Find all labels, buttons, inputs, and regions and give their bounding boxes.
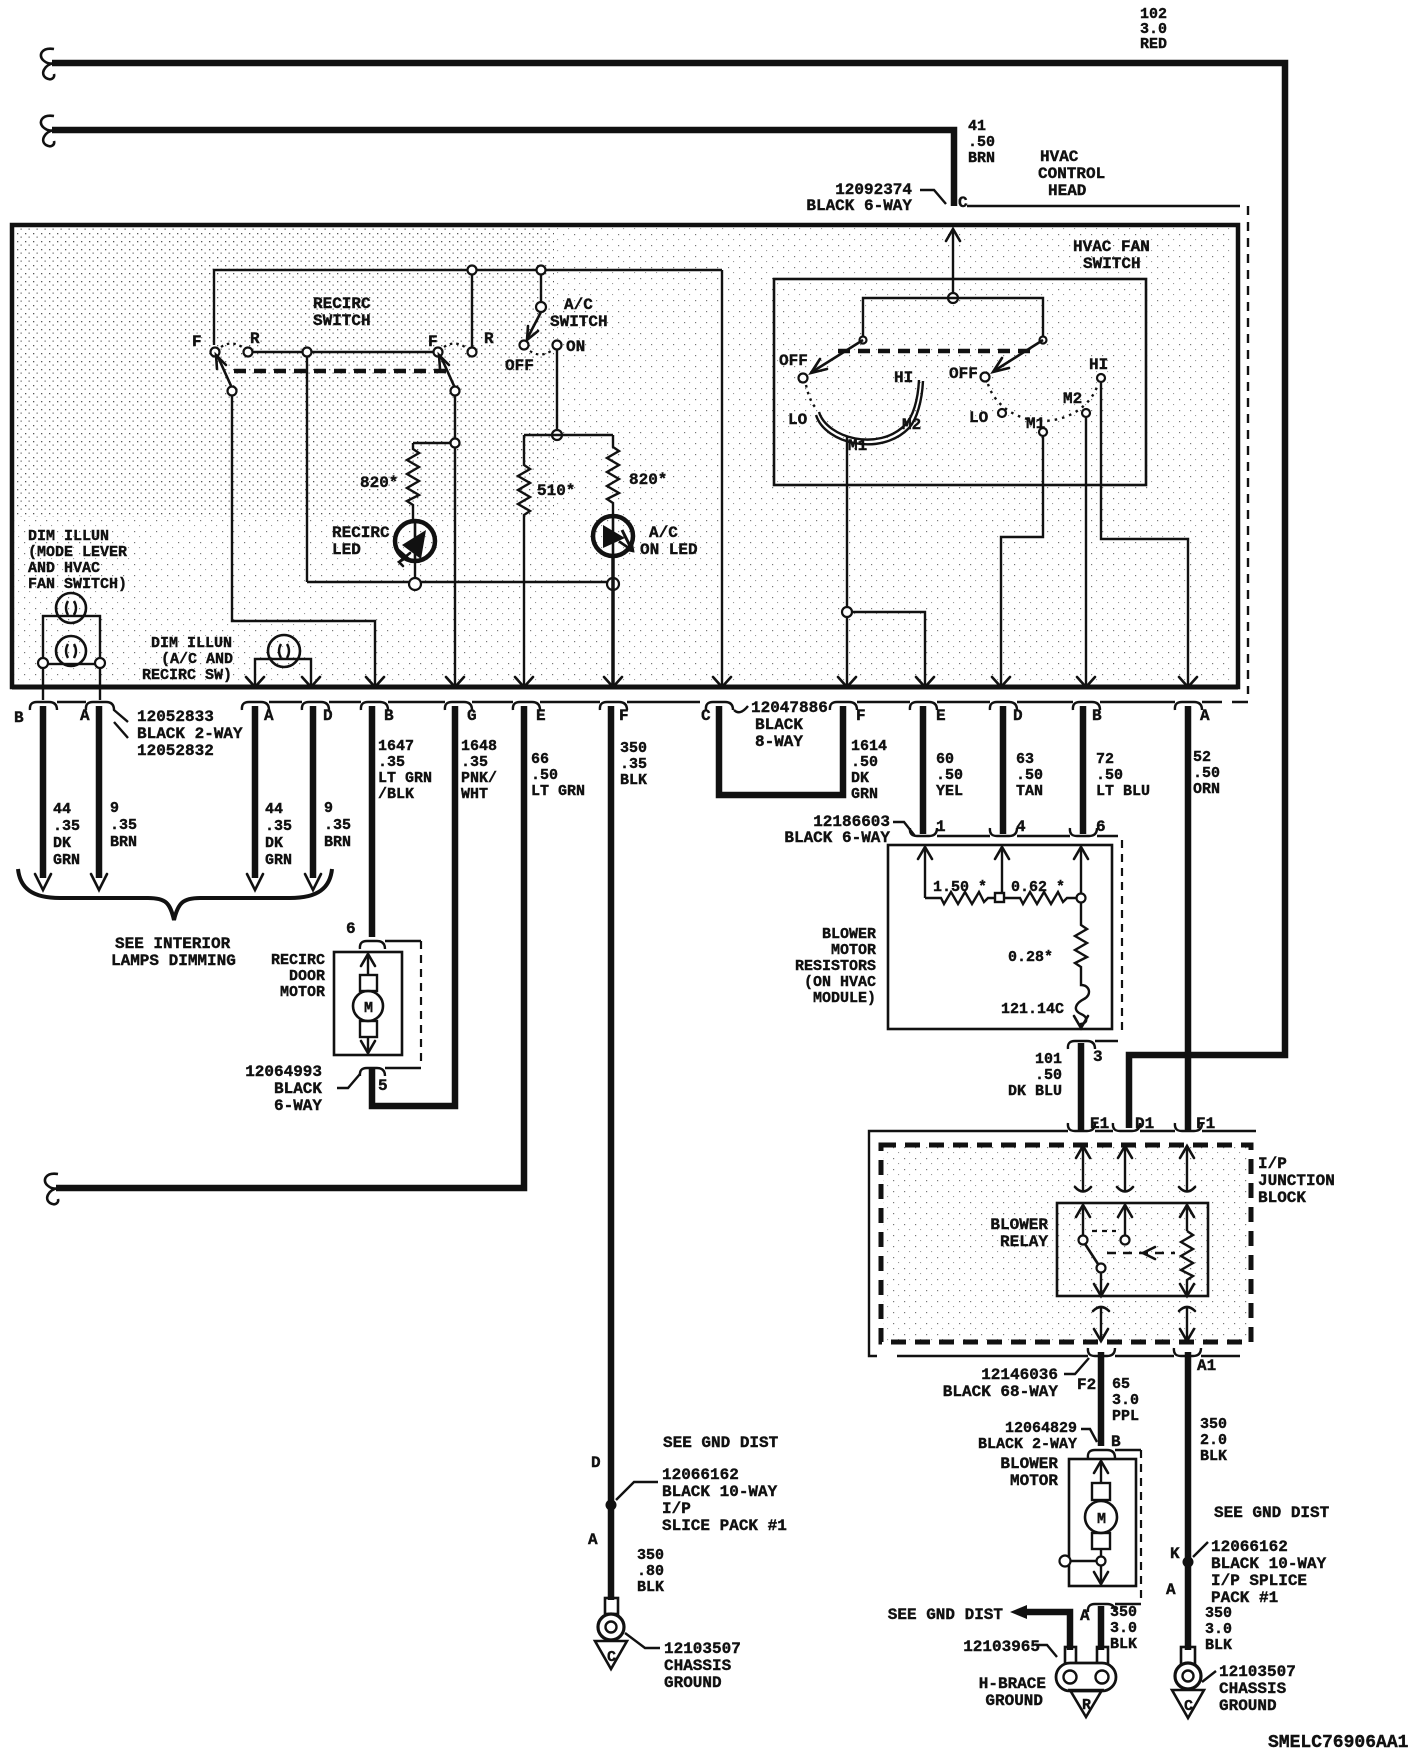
break symbol on wire 41 [41,116,54,147]
wire from left pole down to connector B [232,395,375,686]
svg-text:CONTROL: CONTROL [1038,165,1105,183]
wires from lamp terminals through box bottom [42,668,44,700]
svg-text:66: 66 [531,751,549,768]
svg-text:D: D [323,707,333,725]
svg-text:M: M [1097,1511,1106,1528]
wire A/C LED bottom down to connector F [611,556,615,686]
connector 12186603 face (pins 1 4 6) [910,828,1118,836]
wire E1 into block [1076,1146,1090,1158]
svg-text:MOTOR: MOTOR [1010,1472,1058,1490]
6-way connector dashed body [1121,840,1123,1036]
svg-text:.50: .50 [1096,767,1123,784]
wire 101 DK BLU to I/P junction E1 [1078,1043,1085,1130]
svg-text:F: F [192,333,202,351]
svg-text:JUNCTION: JUNCTION [1258,1172,1335,1190]
svg-text:12066162: 12066162 [1211,1538,1288,1556]
svg-text:9: 9 [110,800,119,817]
svg-text:ON LED: ON LED [640,541,698,559]
svg-text:.50: .50 [531,767,558,784]
svg-text:(ON HVAC: (ON HVAC [804,974,876,991]
left pole pivot [228,387,237,396]
svg-text:HEAD: HEAD [1048,182,1086,200]
svg-text:BLACK 6-WAY: BLACK 6-WAY [784,829,890,847]
svg-text:.35: .35 [378,754,405,771]
svg-text:G: G [467,707,477,725]
svg-text:DK: DK [265,835,283,852]
junction to LED return rail [303,348,312,357]
wire 65 PPL (F2 to blower motor B) [1098,1352,1105,1446]
svg-text:GROUND: GROUND [985,1692,1043,1710]
wire coil return to A1 (through block bottom) [1179,1307,1195,1311]
resistor 0.62 [1004,892,1076,904]
junction circle [1077,894,1086,903]
detent arc F-R [221,344,242,348]
svg-text:350: 350 [637,1547,664,1564]
wire: inner box right edge down to connector C [721,270,723,686]
svg-text:12064993: 12064993 [245,1063,322,1081]
svg-text:101: 101 [1035,1051,1062,1068]
svg-text:.35: .35 [110,817,137,834]
svg-text:5: 5 [378,1077,388,1095]
svg-text:A: A [80,707,90,725]
arrows lamp3 leads at box edge [246,677,264,687]
svg-text:.35: .35 [53,818,80,835]
wire relay to F2 (through block bottom) [1093,1307,1109,1311]
svg-text:BLOWER: BLOWER [1000,1455,1058,1473]
rail to 510 and 820 branches [524,434,613,436]
svg-text:0.28*: 0.28* [1008,949,1053,966]
wire right M1 to connector D [1001,436,1043,686]
lamp 3 leads to connector A and D [255,659,311,686]
svg-text:DK: DK [53,835,71,852]
resistor 0.28 [1075,903,1087,972]
left detent dotted arc OFF-LO [806,385,817,409]
svg-text:B: B [384,707,394,725]
wire 9 BRN (A) [96,706,103,878]
resistor 820 (a/c on led) [607,435,619,517]
svg-text:52: 52 [1193,749,1211,766]
svg-text:WHT: WHT [461,786,488,803]
wire 60 YEL (E) [920,706,927,834]
resistor 1.50 [925,892,995,904]
wire 41 BRN (ignition feed) [52,130,954,206]
wire ON down to splitter [556,350,558,430]
svg-text:RESISTORS: RESISTORS [795,958,876,975]
svg-text:GROUND: GROUND [664,1674,722,1692]
wire 102 RED (battery feed, top) [52,63,1285,1128]
svg-text:FAN SWITCH): FAN SWITCH) [28,576,127,593]
svg-text:CHASSIS: CHASSIS [1219,1680,1287,1698]
svg-text:MOTOR: MOTOR [280,984,325,1001]
splice 12066162 (left) [606,1500,617,1511]
svg-text:12047886: 12047886 [751,699,828,717]
svg-text:BLK: BLK [1205,1637,1232,1654]
leader line to connector C [920,190,946,204]
svg-text:A: A [264,707,274,725]
svg-text:SWITCH: SWITCH [313,312,371,330]
LED A/C ON [593,516,633,556]
svg-text:PNK/: PNK/ [461,770,497,787]
svg-text:BLACK 68-WAY: BLACK 68-WAY [943,1383,1059,1401]
wire 1648 PNK/WHT (G) to recirc door motor pin 5 [372,706,455,1106]
svg-text:BLACK 2-WAY: BLACK 2-WAY [978,1436,1077,1453]
svg-text:.35: .35 [265,818,292,835]
svg-text:HVAC FAN: HVAC FAN [1073,238,1150,256]
h-brace ground terminal [1056,1647,1116,1717]
wire right M2 to connector B [1085,417,1087,686]
splice 12066162 (right) [1183,1557,1194,1568]
relay contact terminals [1079,1236,1088,1245]
svg-text:63: 63 [1016,751,1034,768]
right OFF terminal [981,373,990,382]
svg-text:SWITCH: SWITCH [550,313,608,331]
svg-text:C: C [1184,1698,1193,1715]
junction M1 split F/E [842,607,852,617]
wire C into fan switch (arrow up at box top) [946,229,960,241]
blower relay box [1057,1203,1208,1296]
svg-text:350: 350 [1205,1605,1232,1622]
wire C to F jumper (1614) [719,706,843,795]
svg-text:0.62 *: 0.62 * [1011,879,1065,896]
svg-text:A1: A1 [1197,1357,1216,1375]
svg-text:65: 65 [1112,1376,1130,1393]
svg-text:PPL: PPL [1112,1408,1139,1425]
svg-text:E: E [936,707,946,725]
svg-text:ON: ON [566,338,585,356]
chassis ground terminal (right) [1172,1647,1204,1718]
svg-text:D: D [591,1454,601,1472]
svg-text:.50: .50 [968,134,995,151]
svg-text:8-WAY: 8-WAY [755,733,803,751]
relay contact dashed hint [1092,1230,1116,1232]
svg-text:I/P: I/P [662,1500,691,1518]
wire R up to inner box top [471,270,473,347]
svg-text:LT GRN: LT GRN [531,783,585,800]
svg-text:.50: .50 [1016,767,1043,784]
wire R to F2 [252,351,434,353]
svg-text:GRN: GRN [851,786,878,803]
svg-text:LO: LO [788,411,808,429]
fan switch feed junction [948,293,958,303]
HVAC control head box bottom edge [12,685,1238,690]
svg-text:44: 44 [265,801,283,818]
svg-text:6-WAY: 6-WAY [274,1097,322,1115]
wire 350 BLK (F) to chassis ground [608,706,615,1600]
svg-text:3.0: 3.0 [1112,1392,1139,1409]
connector 12052833/12052832 face (2-way pair) [30,702,128,722]
leader to pin B [1081,1429,1097,1442]
break symbol on wire 102 [41,49,54,80]
blower motor connector face (A) [1088,1604,1141,1612]
right pole pivot [451,387,460,396]
svg-text:BLACK 2-WAY: BLACK 2-WAY [137,725,243,743]
svg-text:LED: LED [332,541,361,559]
svg-text:DK BLU: DK BLU [1008,1083,1062,1100]
svg-text:12103965: 12103965 [963,1638,1040,1656]
svg-text:6: 6 [346,920,356,938]
svg-text:MOTOR: MOTOR [831,942,876,959]
svg-text:BRN: BRN [324,834,351,851]
svg-text:RED: RED [1140,36,1167,53]
svg-text:LT GRN: LT GRN [378,770,432,787]
A/C switch armature [527,312,541,339]
leader from ground ring [1202,1671,1216,1682]
svg-text:OFF: OFF [949,365,978,383]
mechanical link fan switch (dashed) [838,349,1038,354]
svg-text:350: 350 [1200,1416,1227,1433]
svg-text:1648: 1648 [461,738,497,755]
svg-text:12103507: 12103507 [1219,1663,1296,1681]
wire junction to connector E [852,612,925,686]
svg-text:SWITCH: SWITCH [1083,255,1141,273]
right terminals LO M1 M2 HI [998,409,1006,417]
svg-text:12066162: 12066162 [662,1466,739,1484]
wire pin6 into resistor box [1074,847,1088,859]
svg-text:BLK: BLK [1200,1448,1227,1465]
svg-text:.50: .50 [936,767,963,784]
svg-text:RECIRC: RECIRC [332,524,390,542]
break symbol on wire 66 [45,1174,58,1205]
svg-text:(A/C AND: (A/C AND [161,651,233,668]
svg-text:TAN: TAN [1016,783,1043,800]
exit arrow at resistor box bottom [1074,1016,1088,1028]
connector face pin 3 [1068,1041,1118,1049]
svg-text:A: A [1080,1607,1090,1625]
LED cathode lead [414,561,416,582]
junction square [995,893,1004,902]
svg-text:A: A [1200,707,1210,725]
svg-text:3.0: 3.0 [1110,1620,1137,1637]
svg-text:60: 60 [936,751,954,768]
svg-text:SEE GND DIST: SEE GND DIST [663,1434,779,1452]
svg-text:DK: DK [851,770,869,787]
left armature to OFF [812,340,863,372]
svg-text:3: 3 [1093,1048,1103,1066]
svg-text:SEE GND DIST: SEE GND DIST [1214,1504,1330,1522]
wire 63 TAN (D) [1000,706,1007,834]
svg-text:1.50 *: 1.50 * [933,879,987,896]
relay actuation dashed link with arrow [1107,1252,1175,1254]
connector face line under C / control head dashed boundary [967,205,1240,207]
svg-text:HI: HI [1089,356,1108,374]
svg-text:C: C [607,1649,616,1666]
recirc door motor internals [353,954,383,1053]
svg-text:72: 72 [1096,751,1114,768]
svg-text:RECIRC: RECIRC [271,952,325,969]
svg-text:I/P SPLICE: I/P SPLICE [1211,1572,1307,1590]
connector 12146036 face (F2 A1) [1088,1348,1240,1356]
detent arc F-R (right) [444,344,465,348]
right pole pivot [1040,337,1047,344]
svg-text:BLOWER: BLOWER [990,1216,1048,1234]
wire armature to relay bottom [1100,1272,1102,1294]
svg-text:BLOWER: BLOWER [822,926,876,943]
svg-text:HVAC: HVAC [1040,148,1079,166]
blower motor connector dashed body [1140,1450,1142,1600]
svg-text:.35: .35 [461,754,488,771]
connector 6-way face (A D B G E F) [242,702,700,710]
svg-text:F: F [619,707,629,725]
svg-text:GRN: GRN [265,852,292,869]
svg-text:.35: .35 [324,817,351,834]
leader to pin 5 [337,1074,360,1088]
leader from C connector [734,706,748,712]
svg-text:BLK: BLK [637,1579,664,1596]
illumination lamp 1 (mode lever) [56,593,86,623]
relay pin arrows at top [1076,1205,1090,1217]
leader to pin 1 [893,822,915,836]
svg-text:MODULE): MODULE) [813,990,876,1007]
svg-text:ORN: ORN [1193,781,1220,798]
svg-text:OFF: OFF [779,352,808,370]
svg-text:9: 9 [324,800,333,817]
left contact strip arc LO-M1-M2-HI (double line) [819,380,919,440]
speckle background of I/P junction block [883,1145,1249,1341]
illumination lamp 2 (hvac fan switch) [56,636,86,666]
svg-text:A: A [588,1531,598,1549]
svg-text:CHASSIS: CHASSIS [664,1657,732,1675]
svg-text:350: 350 [1110,1604,1137,1621]
lamp housing box [43,616,100,664]
svg-text:RELAY: RELAY [1000,1233,1048,1251]
svg-text:.80: .80 [637,1563,664,1580]
A/C switch feed from inner box top [537,266,546,275]
recirc switch armature (right pole) [441,357,455,388]
svg-text:.50: .50 [1035,1067,1062,1084]
svg-text:M2: M2 [902,416,921,434]
resistor 820 (recirc led) [407,443,419,522]
svg-text:.50: .50 [1193,765,1220,782]
HVAC fan switch box [774,279,1146,485]
A/C switch OFF terminal [520,341,529,350]
svg-text:/BLK: /BLK [378,786,414,803]
wire junction to connector F [846,617,848,686]
branch wire + resistor 510 [518,435,530,686]
svg-text:2.0: 2.0 [1200,1432,1227,1449]
mechanical link recirc switch (dashed) [234,369,452,374]
wire 9 BRN (lamp3 D) [310,706,317,878]
connector 12047886 8-way face (C F E D B A) [706,702,1248,710]
left pole pivot [860,337,867,344]
leader to F2 [1064,1358,1089,1374]
svg-text:HI: HI [894,369,913,387]
svg-text:F: F [856,707,866,725]
svg-text:AND HVAC: AND HVAC [28,560,100,577]
relay armature [1085,1244,1098,1264]
relay coil [1181,1231,1193,1294]
svg-text:.50: .50 [851,754,878,771]
svg-text:B: B [14,709,24,727]
svg-text:M: M [364,1000,373,1017]
svg-text:41: 41 [968,118,986,135]
wire 1647 LT GRN/BLK (B) to recirc door motor pin 6 [369,706,376,937]
svg-text:BRN: BRN [968,150,995,167]
svg-text:121.14C: 121.14C [1001,1001,1064,1018]
wire 52 ORN (A) down to I/P junction F1 [1185,706,1192,1130]
svg-text:12052833: 12052833 [137,708,214,726]
speckle background of HVAC control head box [14,227,1234,685]
svg-text:GRN: GRN [53,852,80,869]
svg-text:4: 4 [1016,818,1026,836]
wire 72 LT BLU (B) [1080,706,1087,834]
svg-text:RECIRC SW): RECIRC SW) [142,667,232,684]
svg-text:R: R [484,330,494,348]
svg-text:LO: LO [969,409,989,427]
recirc door motor box [334,952,402,1055]
svg-text:12052832: 12052832 [137,742,214,760]
svg-text:BLACK 10-WAY: BLACK 10-WAY [662,1483,778,1501]
svg-text:DIM ILLUN: DIM ILLUN [151,635,232,652]
svg-text:350: 350 [620,740,647,757]
svg-text:A/C: A/C [649,524,678,542]
blower motor box [1069,1459,1136,1586]
svg-text:M2: M2 [1063,390,1082,408]
left OFF terminal [799,374,808,383]
svg-text:820*: 820* [360,474,398,492]
svg-text:.35: .35 [620,756,647,773]
svg-text:SLICE PACK #1: SLICE PACK #1 [662,1517,787,1535]
A/C switch ON terminal [553,341,562,350]
svg-text:OFF: OFF [505,357,534,375]
led return rail [307,581,613,583]
svg-text:RECIRC: RECIRC [313,295,371,313]
svg-text:I/P: I/P [1258,1155,1287,1173]
svg-text:M1: M1 [1026,415,1045,433]
svg-text:12103507: 12103507 [664,1640,741,1658]
svg-text:1614: 1614 [851,738,887,755]
svg-text:GROUND: GROUND [1219,1697,1277,1715]
LED RECIRC [395,521,435,566]
svg-text:A: A [1166,1581,1176,1599]
recirc door motor connector face (top) [360,941,421,949]
svg-text:BLACK 6-WAY: BLACK 6-WAY [806,197,912,215]
wire right HI to connector A [1101,382,1188,686]
svg-text:D: D [1013,707,1023,725]
svg-text:SMELC76906AA1: SMELC76906AA1 [1268,1733,1408,1753]
wire 350 BLK (blower motor ground) [1098,1606,1105,1650]
svg-text:R: R [250,330,260,348]
svg-text:E: E [536,707,546,725]
wire A1 350 BLK to chassis ground [1185,1352,1192,1650]
svg-text:SEE GND DIST: SEE GND DIST [888,1606,1004,1624]
branch wire to resistor 820 (recirc led) [413,442,451,444]
right armature to OFF [994,340,1043,371]
feed rail [863,298,1043,340]
svg-text:44: 44 [53,801,71,818]
svg-text:B: B [1092,707,1102,725]
I/P junction block dashed box [881,1145,1251,1342]
exit arrows at control head bottom edge [366,677,384,687]
wire F1 into block [1180,1146,1194,1158]
svg-text:C: C [958,194,968,212]
svg-text:F2: F2 [1077,1376,1096,1394]
I/P junction block outer boundary + connector face E1 D1 F1 [869,1123,1256,1143]
wire left M1 down to junction [846,437,848,607]
thermal limiter 121.14C [1076,972,1089,1028]
recirc door motor connector face (bottom) [360,1068,421,1076]
blower motor connector face (B) [1088,1450,1141,1458]
svg-text:M1: M1 [848,437,867,455]
junction to 820 resistor branch [451,439,460,448]
wire 44 DK GRN (B) [40,706,47,878]
svg-text:K: K [1170,1545,1180,1563]
svg-text:B: B [1111,1433,1121,1451]
chassis ground terminal (left) [595,1598,627,1669]
svg-text:A/C: A/C [564,296,593,314]
svg-text:LT BLU: LT BLU [1096,783,1150,800]
svg-text:BLK: BLK [620,772,647,789]
svg-text:YEL: YEL [936,783,963,800]
